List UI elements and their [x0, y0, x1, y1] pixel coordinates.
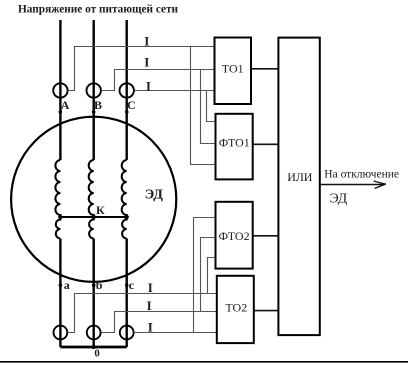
svg-text:К: К: [96, 203, 105, 217]
svg-text:ТО1: ТО1: [222, 62, 244, 76]
svg-text:I: I: [144, 55, 149, 70]
svg-text:0: 0: [94, 347, 99, 359]
svg-text:ФТО1: ФТО1: [219, 135, 250, 149]
svg-text:a: a: [64, 278, 70, 292]
svg-text:А: А: [61, 98, 70, 112]
svg-text:I: I: [148, 320, 153, 335]
svg-text:ЭД: ЭД: [330, 192, 348, 207]
svg-text:Напряжение от питающей сети: Напряжение от питающей сети: [18, 3, 179, 15]
svg-text:ФТО2: ФТО2: [219, 229, 250, 243]
svg-text:c: c: [129, 278, 135, 292]
svg-text:ИЛИ: ИЛИ: [287, 170, 313, 184]
svg-text:С: С: [127, 98, 136, 112]
svg-text:I: I: [144, 33, 149, 48]
svg-text:I: I: [146, 79, 151, 94]
svg-text:b: b: [96, 278, 103, 292]
svg-text:I: I: [147, 298, 152, 313]
svg-text:I: I: [148, 280, 153, 295]
svg-text:ТО2: ТО2: [225, 300, 247, 314]
svg-text:На отключение: На отключение: [324, 168, 399, 180]
svg-text:В: В: [94, 98, 102, 112]
svg-text:ЭД: ЭД: [145, 188, 164, 203]
